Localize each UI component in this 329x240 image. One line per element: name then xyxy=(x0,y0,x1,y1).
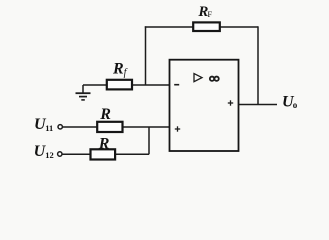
svg-text:11: 11 xyxy=(45,123,53,133)
svg-text:R: R xyxy=(112,60,124,77)
svg-text:F: F xyxy=(207,9,212,19)
svg-text:R: R xyxy=(98,135,110,152)
svg-text:12: 12 xyxy=(45,150,54,160)
svg-text:R: R xyxy=(99,106,111,123)
svg-text:o: o xyxy=(293,100,298,110)
